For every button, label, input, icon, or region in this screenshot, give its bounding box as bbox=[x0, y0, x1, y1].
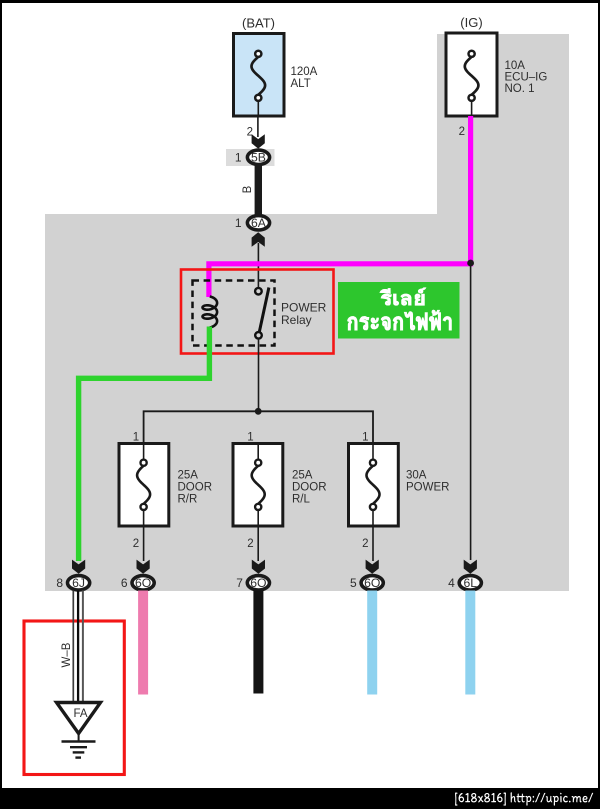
wire pink from 6O pin 6 bbox=[138, 591, 148, 695]
svg-text:120A: 120A bbox=[291, 66, 318, 78]
svg-text:6A: 6A bbox=[251, 216, 267, 230]
svg-text:2: 2 bbox=[459, 126, 465, 138]
svg-text:2: 2 bbox=[133, 538, 139, 550]
connector arrow into 5B bbox=[252, 134, 265, 148]
wire blue from 6L pin 4 bbox=[465, 591, 475, 695]
svg-text:(IG): (IG) bbox=[460, 15, 482, 30]
shading band at connector 5B bbox=[226, 149, 275, 166]
svg-text:POWER: POWER bbox=[406, 482, 449, 494]
svg-text:6O: 6O bbox=[135, 576, 151, 590]
relay switch bbox=[255, 288, 269, 339]
svg-text:R/L: R/L bbox=[292, 494, 311, 506]
wire W-B triple line bbox=[73, 591, 83, 703]
label relay Thai green box bbox=[338, 282, 460, 339]
svg-text:5B: 5B bbox=[251, 151, 266, 165]
svg-text:(BAT): (BAT) bbox=[242, 16, 275, 31]
svg-text:6L: 6L bbox=[464, 576, 478, 590]
bus wire to fuses bbox=[144, 411, 373, 443]
wire IG magenta bbox=[209, 116, 471, 297]
wire relay switch to bus bbox=[258, 339, 260, 412]
junction block shading main body bbox=[45, 214, 569, 591]
svg-text:1: 1 bbox=[133, 432, 139, 444]
fuse 25A DOOR R/R bbox=[119, 444, 169, 527]
watermark bar bbox=[0, 788, 600, 809]
ground FA bbox=[57, 703, 101, 758]
connector arrow below 6A bbox=[252, 232, 265, 247]
wire black from 6O pin 7 bbox=[253, 591, 263, 694]
connector 6A pin 1 bbox=[235, 216, 270, 231]
svg-text:6J: 6J bbox=[72, 576, 85, 590]
connector 6J pin 8 bbox=[56, 576, 89, 591]
svg-text:ECU–IG: ECU–IG bbox=[505, 72, 548, 84]
wire blue from 6O pin 5 bbox=[367, 591, 377, 695]
svg-text:Relay: Relay bbox=[281, 313, 312, 327]
svg-text:25A: 25A bbox=[292, 470, 313, 482]
highlight box ground (red) bbox=[24, 621, 124, 775]
connector 6L pin 4 bbox=[448, 576, 481, 591]
relay coil bbox=[203, 297, 218, 328]
wire fuse 3 down bbox=[372, 444, 374, 461]
svg-text:1: 1 bbox=[362, 432, 368, 444]
connector 6O pin 5 bbox=[350, 576, 383, 591]
connector arrow into 6O pin 7 bbox=[252, 560, 265, 574]
wire B (thick) bbox=[255, 164, 262, 216]
highlight box relay (red) bbox=[181, 270, 334, 354]
connector arrow into 6L pin 4 bbox=[464, 560, 477, 574]
svg-text:DOOR: DOOR bbox=[178, 482, 213, 494]
svg-text:6: 6 bbox=[121, 576, 128, 590]
svg-text:4: 4 bbox=[448, 576, 455, 590]
svg-text:NO. 1: NO. 1 bbox=[505, 83, 535, 95]
svg-text:W–B: W–B bbox=[61, 642, 73, 667]
svg-text:7: 7 bbox=[236, 576, 243, 590]
svg-text:30A: 30A bbox=[406, 470, 427, 482]
svg-text:DOOR: DOOR bbox=[292, 482, 327, 494]
svg-text:1: 1 bbox=[247, 432, 253, 444]
wire fuse 1 down bbox=[143, 444, 145, 461]
node bus junction bbox=[255, 408, 262, 415]
svg-text:8: 8 bbox=[56, 576, 63, 590]
connector 6O pin 6 bbox=[121, 576, 154, 591]
node junction IG wire bbox=[467, 260, 474, 267]
wire fuse 2 down bbox=[257, 444, 259, 461]
connector arrow into 6J pin 8 bbox=[72, 560, 85, 574]
fuse 30A POWER bbox=[349, 444, 399, 527]
junction block shading top-right bbox=[437, 34, 569, 215]
svg-text:5: 5 bbox=[350, 576, 357, 590]
wire 6A to relay bbox=[257, 243, 259, 288]
svg-text:FA: FA bbox=[73, 708, 87, 720]
frame border bbox=[0, 0, 600, 3]
svg-text:R/R: R/R bbox=[178, 494, 198, 506]
wire green relay coil to 6J bbox=[79, 327, 210, 562]
wire BAT fuse to 5B bbox=[257, 116, 259, 137]
watermark text 618x816 upic.me bbox=[455, 792, 593, 805]
fuse 10A ECU-IG NO.1 bbox=[446, 33, 497, 116]
svg-text:6O: 6O bbox=[250, 576, 266, 590]
svg-text:1: 1 bbox=[235, 216, 242, 230]
svg-text:1: 1 bbox=[235, 151, 242, 165]
wire inside BAT fuse bbox=[257, 100, 259, 116]
wire junction to 6L bbox=[470, 264, 472, 560]
svg-text:6O: 6O bbox=[364, 576, 380, 590]
fuse 120A ALT bbox=[234, 34, 285, 117]
svg-text:B: B bbox=[242, 185, 254, 193]
connector arrow into 6O pin 6 bbox=[137, 560, 150, 574]
svg-text:10A: 10A bbox=[505, 60, 526, 72]
connector 6O pin 7 bbox=[236, 576, 269, 591]
connector 5B pin 1 bbox=[235, 150, 270, 165]
svg-text:2: 2 bbox=[247, 538, 253, 550]
svg-text:ALT: ALT bbox=[291, 78, 311, 90]
svg-text:2: 2 bbox=[362, 538, 368, 550]
connector arrow into 6O pin 5 bbox=[366, 560, 379, 574]
relay enclosure (dashed) bbox=[193, 281, 275, 346]
wire inside IG fuse bbox=[471, 100, 473, 117]
svg-text:25A: 25A bbox=[178, 470, 199, 482]
fuse 25A DOOR R/L bbox=[233, 444, 283, 527]
